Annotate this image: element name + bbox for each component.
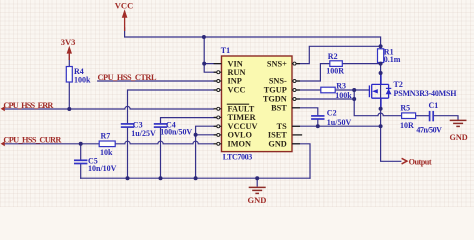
- wire GND pin of IC down to bus: [292, 144, 310, 178]
- wire CPU_HSS_CTRL to INP: [98, 80, 218, 82]
- power 3V3 arrow: [61, 37, 76, 60]
- junction TGDN / gate node: [352, 97, 356, 101]
- svg-text:BST: BST: [271, 104, 287, 113]
- svg-text:CPU_HSS_CURR: CPU_HSS_CURR: [3, 136, 62, 145]
- junction VIN tap: [202, 62, 206, 66]
- resistor R1: [378, 47, 401, 64]
- junction OVLO leg / ground bus: [194, 176, 198, 180]
- IC pin names left: [228, 59, 258, 148]
- junction C4 / ground bus: [159, 176, 163, 180]
- FAULT overline: [227, 103, 249, 105]
- resistor R4: [66, 67, 91, 85]
- wire C5 bottom to bus: [80, 164, 82, 178]
- wire C5 top: [80, 144, 82, 160]
- svg-text:T1: T1: [221, 46, 230, 55]
- wire OVLO: [196, 134, 218, 136]
- svg-text:TIMER: TIMER: [228, 113, 257, 122]
- net arrow CURR: [1, 141, 5, 146]
- pin bubbles left: [217, 71, 220, 146]
- svg-text:RUN: RUN: [228, 68, 246, 77]
- wire R3 to gate: [335, 89, 369, 91]
- svg-text:VCC: VCC: [115, 1, 133, 11]
- svg-text:100n/50V: 100n/50V: [160, 128, 192, 137]
- svg-text:Output: Output: [409, 158, 432, 167]
- wire 3V3 to R4: [68, 55, 70, 67]
- wire main vertical VCC/R1/T2/output: [381, 46, 401, 161]
- pin bubbles right: [293, 62, 296, 100]
- capacitor C4: [154, 121, 193, 137]
- svg-text:10k: 10k: [100, 148, 113, 157]
- ground symbol right: [450, 120, 468, 141]
- output port arrow: [402, 158, 432, 167]
- svg-text:3V3: 3V3: [61, 37, 76, 47]
- wire SNS- jog to R2: [296, 64, 330, 81]
- net arrow ERR: [1, 106, 5, 111]
- op IC U1 body LTC7003: [222, 56, 293, 152]
- junction source node: [379, 107, 383, 111]
- svg-text:R3: R3: [336, 82, 346, 91]
- svg-text:T2: T2: [394, 80, 403, 89]
- junction TS net / source: [379, 124, 383, 128]
- junction R1 top / SNS+: [379, 44, 383, 48]
- wire C3 bottom to bus: [127, 128, 129, 178]
- wire BST to C2: [292, 108, 318, 115]
- svg-text:100R: 100R: [326, 66, 344, 75]
- wire ISET stub: [292, 134, 302, 136]
- resistor R7: [99, 132, 115, 157]
- svg-text:SNS+: SNS+: [267, 59, 287, 68]
- wire R7 to IMON with hops over C3 C4 and OVLO verticals: [115, 141, 213, 144]
- capacitor C1: [416, 101, 442, 134]
- wire OVLO node down to bus: [195, 135, 197, 178]
- junction C5 / CURR net: [79, 142, 83, 146]
- wire CPU_HSS_ERR to FAULT with hop over C3 lead: [3, 106, 214, 109]
- svg-text:10R: 10R: [400, 121, 414, 130]
- transistor T2 PSMN3R3-40MSH: [369, 73, 457, 109]
- wire R4 bottom: [68, 82, 70, 109]
- wire C4 bottom to bus: [160, 128, 162, 178]
- wire gate node down and right with hop over source vertical: [354, 90, 401, 116]
- junction R4 / ERR net: [67, 107, 71, 111]
- svg-text:TGUP: TGUP: [264, 85, 287, 94]
- wire C1 to right GND: [434, 116, 458, 120]
- svg-text:10n/10V: 10n/10V: [88, 164, 117, 173]
- junction drain node: [379, 71, 383, 75]
- svg-text:GND: GND: [248, 195, 267, 205]
- junction C2 / TS net: [316, 124, 320, 128]
- svg-text:R5: R5: [400, 104, 410, 113]
- wire VCC rail top: [125, 28, 381, 46]
- capacitor C2: [311, 108, 351, 126]
- svg-text:ISET: ISET: [268, 131, 287, 140]
- wire C2 bottom: [317, 120, 319, 127]
- svg-text:SNS-: SNS-: [269, 77, 287, 86]
- svg-text:C1: C1: [429, 101, 439, 110]
- wire R5 to C1: [416, 115, 429, 117]
- svg-text:R7: R7: [101, 132, 111, 141]
- wire CPU_HSS_CURR to R7: [3, 143, 100, 145]
- wire TS row to source node: [292, 125, 381, 127]
- svg-text:GND: GND: [450, 133, 468, 142]
- svg-text:TGDN: TGDN: [263, 95, 287, 104]
- IC pin names right: [263, 59, 287, 148]
- junction VCCUV-OVLO node: [194, 133, 198, 137]
- wire ground bus: [81, 177, 310, 179]
- pin stubs left (black): [214, 64, 222, 144]
- wire VCCUV jog: [196, 126, 218, 135]
- wire VCC pin to C3: [128, 90, 218, 123]
- svg-text:R4: R4: [74, 67, 84, 76]
- pin stubs right (black): [292, 64, 300, 144]
- svg-text:C2: C2: [327, 108, 337, 117]
- svg-text:OVLO: OVLO: [228, 131, 253, 140]
- wire TGDN to gate node: [296, 98, 354, 100]
- ground symbol bottom: [248, 178, 267, 205]
- svg-text:0.1m: 0.1m: [384, 55, 401, 64]
- wire R2 to R1 bottom: [342, 63, 380, 65]
- svg-text:100k: 100k: [335, 91, 352, 100]
- junction VCC rail / VIN-RUN drop: [202, 35, 206, 39]
- svg-text:IMON: IMON: [228, 140, 252, 149]
- wire VIN spur: [204, 63, 221, 65]
- svg-text:PSMN3R3-40MSH: PSMN3R3-40MSH: [394, 89, 458, 98]
- svg-text:LTC7003: LTC7003: [223, 152, 253, 161]
- junction TGUP / gate node: [352, 88, 356, 92]
- junction GND symbol / ground bus: [255, 176, 259, 180]
- resistor R2: [326, 52, 344, 75]
- junction C3 / ground bus: [126, 176, 130, 180]
- wire VCC drop to VIN/RUN: [204, 37, 218, 72]
- capacitor C5: [74, 157, 117, 174]
- svg-text:1u/50V: 1u/50V: [327, 118, 352, 127]
- resistor R5: [400, 104, 416, 130]
- svg-text:CPU_HSS_ERR: CPU_HSS_ERR: [3, 101, 54, 110]
- svg-text:VCC: VCC: [228, 85, 246, 94]
- svg-text:R2: R2: [328, 52, 338, 61]
- svg-text:GND: GND: [268, 140, 286, 149]
- svg-text:CPU_HSS_CTRL: CPU_HSS_CTRL: [98, 73, 157, 82]
- resistor R3: [321, 82, 352, 100]
- svg-text:1u/25V: 1u/25V: [131, 129, 156, 138]
- capacitor C3: [121, 121, 156, 139]
- junction R1 bottom / SNS-: [379, 62, 383, 66]
- svg-text:47n/50V: 47n/50V: [416, 126, 442, 135]
- wire TGUP to R3: [296, 89, 321, 91]
- svg-text:100k: 100k: [74, 76, 91, 85]
- wire TIMER to C4: [161, 118, 218, 124]
- wire SNS+ to R1 top: [296, 46, 381, 63]
- power VCC arrow: [115, 1, 133, 31]
- svg-text:INP: INP: [228, 77, 242, 86]
